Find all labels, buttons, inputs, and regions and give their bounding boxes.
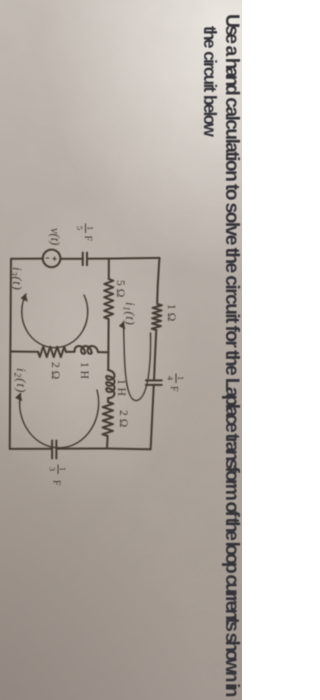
resistor R 5ohm (104, 279, 113, 319)
source V1 circle (43, 250, 61, 268)
resistor R 2ohm vertical (38, 347, 66, 358)
inductor L 1H vertical (75, 346, 99, 354)
capacitor C 1/4F plates (146, 380, 162, 385)
loop arrow i3 (22, 294, 88, 348)
capacitor C 1/5F plates (83, 253, 87, 266)
svg-text:1 H: 1 H (78, 362, 90, 379)
capacitor C 1/3F plates (52, 441, 56, 459)
svg-text:i1(t): i1(t) (122, 302, 139, 325)
wire top (151, 258, 160, 449)
svg-text:v(t): v(t) (48, 228, 62, 245)
source polarity plus (53, 257, 57, 261)
wire source to bottom-left corner (11, 258, 43, 260)
label 1/5 fraction (75, 224, 96, 242)
resistor R 2ohm horizontal (102, 402, 113, 436)
svg-text:5 Ω: 5 Ω (114, 280, 126, 298)
svg-text:4: 4 (166, 376, 176, 381)
svg-text:i2(t): i2(t) (13, 368, 30, 393)
svg-text:F: F (51, 480, 62, 486)
svg-text:F: F (82, 236, 93, 242)
wire left branch upper (87, 257, 160, 260)
resistor R 1ohm (152, 304, 162, 330)
svg-text:1 H: 1 H (115, 379, 127, 396)
svg-text:i3(t): i3(t) (9, 267, 26, 290)
wire to right branch (106, 436, 109, 449)
wire mid vertical upper (98, 351, 109, 353)
wire mid horizontal left (108, 259, 110, 279)
wire bottom (10, 259, 11, 449)
label 1/4 fraction (166, 374, 187, 393)
wire cap to source (60, 258, 82, 260)
svg-text:2 Ω: 2 Ω (117, 410, 129, 428)
svg-text:1 Ω: 1 Ω (165, 304, 177, 322)
loop arrow i1 (124, 322, 151, 401)
svg-text:5: 5 (75, 226, 85, 230)
wire mid vertical middle (66, 351, 74, 353)
label 1/3 fraction (48, 465, 69, 487)
svg-text:1: 1 (58, 467, 68, 471)
source polarity minus (46, 257, 49, 259)
loop arrow i2 (20, 390, 99, 448)
wire mid vertical lower (11, 351, 39, 353)
svg-text:2 Ω: 2 Ω (49, 362, 61, 380)
svg-text:3: 3 (48, 467, 58, 471)
wire right branch (10, 448, 151, 451)
wire mid horizontal center (107, 319, 109, 370)
svg-text:1: 1 (86, 226, 96, 230)
wire mid horizontal right (107, 399, 109, 402)
svg-text:F: F (168, 386, 179, 392)
svg-text:1: 1 (176, 376, 186, 380)
inductor L 1H horizontal (106, 370, 114, 398)
